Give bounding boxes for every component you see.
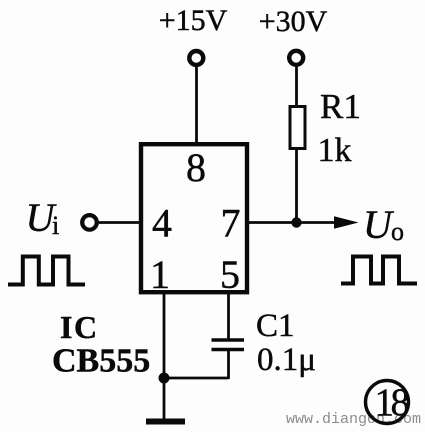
svg-text:5: 5 bbox=[220, 252, 240, 297]
wire pin 7 to output arrow bbox=[247, 221, 336, 224]
svg-text:0.1μ: 0.1μ bbox=[257, 342, 316, 378]
junction pin1 wire / C1 return bbox=[159, 373, 170, 384]
wire +15V terminal to pin 8 bbox=[195, 67, 198, 144]
wire +30V terminal to R1 bbox=[295, 67, 298, 107]
svg-text:o: o bbox=[391, 217, 404, 246]
svg-text:IC: IC bbox=[60, 309, 99, 345]
capacitor C1 bottom plate bbox=[212, 348, 245, 352]
output waveform bbox=[341, 257, 417, 284]
power +15V terminal bbox=[189, 51, 203, 65]
wire C1 bottom plate to return bbox=[227, 350, 230, 380]
ground bbox=[146, 419, 185, 425]
capacitor C1 top plate bbox=[212, 338, 245, 342]
input terminal bbox=[82, 215, 97, 230]
svg-text:i: i bbox=[52, 211, 59, 240]
svg-text:+30V: +30V bbox=[259, 5, 328, 38]
svg-text:CB555: CB555 bbox=[52, 343, 150, 380]
wire input terminal to pin 4 bbox=[98, 221, 141, 224]
svg-text:+15V: +15V bbox=[159, 4, 228, 37]
input waveform bbox=[8, 257, 85, 285]
junction node pin7/R1 bbox=[291, 217, 301, 227]
svg-text:1k: 1k bbox=[318, 132, 352, 169]
output arrow head bbox=[334, 216, 359, 228]
svg-text:1: 1 bbox=[150, 252, 170, 297]
power +30V terminal bbox=[289, 51, 303, 65]
wire pin 1 down to ground bbox=[163, 292, 166, 419]
svg-text:R1: R1 bbox=[320, 87, 361, 126]
resistor R1 bbox=[290, 107, 305, 149]
wire pin 5 down to C1 bbox=[227, 292, 230, 340]
wire C1 bottom to junction bbox=[164, 377, 229, 380]
svg-text:C1: C1 bbox=[256, 308, 295, 344]
op IC U1 CB555 body bbox=[141, 144, 247, 292]
svg-text:4: 4 bbox=[152, 201, 172, 246]
svg-text:18: 18 bbox=[375, 381, 410, 424]
svg-text:8: 8 bbox=[186, 145, 206, 190]
svg-text:7: 7 bbox=[221, 201, 241, 246]
figure number 18 circle bbox=[366, 381, 409, 424]
wire R1 to node at pin 7 bbox=[295, 149, 298, 225]
